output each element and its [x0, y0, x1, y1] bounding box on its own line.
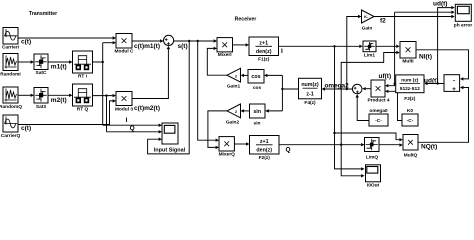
svg-text:F3(z): F3(z)	[404, 96, 416, 102]
signal label m2(t)	[51, 97, 67, 104]
wire Q tap up to MultI input2	[341, 51, 399, 145]
svg-text:CarrierQ: CarrierQ	[1, 133, 21, 139]
svg-text:F1(z): F1(z)	[258, 57, 270, 63]
wire K0 to Product4 input2	[385, 90, 402, 121]
source block RandomQ	[0, 87, 22, 110]
transfer block F3(z)	[396, 75, 424, 102]
wire omega2 tap to Gain f2	[347, 15, 362, 89]
block RT Q	[73, 84, 93, 113]
wire RandomI to SatC	[18, 60, 34, 63]
transfer block F4(z)	[299, 78, 322, 106]
product block Product 4	[367, 80, 389, 104]
wire Modul C to sum	[132, 39, 164, 42]
wire F2 output Q line to LimQ	[279, 143, 365, 146]
saturation block Lim1	[363, 41, 376, 58]
wire CarrierQ to Modul 3 input2	[18, 99, 116, 124]
scope block Input Signal	[154, 123, 186, 154]
wire s branch to scope input3	[148, 41, 190, 154]
wire MixerI to F1	[233, 43, 250, 46]
svg-text:omega0: omega0	[369, 108, 387, 114]
svg-text:MultQ: MultQ	[404, 152, 418, 158]
svg-text:uf(t): uf(t)	[379, 73, 392, 80]
wire Gain f2 to scope input3	[374, 15, 455, 18]
wire to Modul C input2	[103, 41, 116, 44]
svg-text:num (z): num (z)	[401, 78, 418, 84]
signal label ud(t) top	[433, 1, 447, 8]
signal label c(t)m2(t)	[134, 105, 160, 112]
wire CarrierI to Modul C input1	[18, 36, 116, 39]
signal label Q receiver	[286, 147, 291, 154]
svg-text:c(t)m1(t): c(t)m1(t)	[134, 43, 160, 50]
wire MultI NI to summ minus input	[416, 50, 469, 81]
svg-text:NQ(t): NQ(t)	[421, 143, 437, 150]
wire cos to Gain1	[241, 74, 248, 77]
wire Gain1 to MixerI input2	[207, 47, 227, 75]
wire Summ output ud to F3	[424, 82, 444, 85]
wire F3 output uf to scope input2 and Product4 input1	[385, 11, 455, 88]
svg-text:MultI: MultI	[402, 59, 414, 65]
svg-text:I0Out: I0Out	[367, 182, 380, 187]
saturation block SatC	[34, 54, 48, 76]
signal label s(t)	[178, 43, 188, 50]
wire Q tap to scope input2	[107, 130, 163, 133]
svg-text:Modul C: Modul C	[115, 49, 134, 55]
wire F1 output I line to Lim1	[279, 45, 363, 48]
wire Modul 3 to sum bottom	[132, 46, 170, 99]
svg-text:-C-: -C-	[375, 118, 382, 124]
svg-text:RandomI: RandomI	[0, 72, 21, 78]
signal label c(t) bottom	[21, 125, 31, 132]
signal label m1(t)	[51, 63, 67, 70]
wire Q tap down to I0Out input2	[341, 145, 364, 178]
transfer block F2(z)	[250, 136, 280, 162]
saturation block LimQ	[365, 138, 380, 161]
svg-text:ph error: ph error	[454, 22, 473, 28]
svg-text:CarrierI: CarrierI	[2, 45, 20, 51]
wire I tap to scope input1	[103, 124, 162, 127]
svg-text:cos: cos	[251, 74, 260, 80]
wire RT I output with branch	[93, 43, 104, 126]
scope block ph error	[454, 4, 473, 28]
constant block K0	[402, 108, 418, 126]
svg-text:z+1: z+1	[260, 139, 269, 145]
svg-text:Gain: Gain	[362, 26, 373, 32]
svg-text:m1(t): m1(t)	[51, 63, 67, 70]
svg-text:Product 4: Product 4	[367, 98, 389, 104]
wire s branch to MixerQ input1	[198, 41, 219, 142]
wire LimQ to MultQ input2	[379, 143, 403, 146]
scope block I0Out	[366, 165, 381, 189]
svg-text:sin: sin	[254, 120, 261, 126]
svg-text:MixerI: MixerI	[218, 52, 233, 58]
product block MultI	[400, 42, 416, 65]
svg-text:m2(t): m2(t)	[51, 97, 67, 104]
svg-text:den(z): den(z)	[256, 147, 272, 153]
signal label I receiver	[281, 48, 283, 55]
svg-text:Transmitter: Transmitter	[29, 11, 57, 17]
signal label NI(t)	[419, 54, 432, 61]
svg-text:Lim1: Lim1	[364, 52, 376, 58]
svg-text:Receiver: Receiver	[235, 17, 257, 23]
product block Modul 3	[115, 92, 133, 113]
trig block sin	[250, 104, 266, 126]
svg-text:den(z): den(z)	[256, 49, 272, 55]
signal label Q	[130, 125, 135, 132]
svg-text:K-: K-	[364, 14, 369, 19]
wire SatC to RT I	[48, 60, 73, 63]
wire sin to Gain2	[241, 109, 250, 112]
svg-text:Q: Q	[130, 125, 135, 132]
svg-text:NI(t): NI(t)	[419, 54, 432, 61]
svg-text:F4(z): F4(z)	[304, 100, 316, 106]
wire omega0 to sum2 bottom	[356, 94, 370, 120]
svg-text:RT Q: RT Q	[77, 107, 89, 113]
wire Gain2 to MixerQ input2	[208, 111, 227, 149]
product block Modul C	[115, 34, 134, 55]
signal label NQ(t)	[421, 143, 437, 150]
svg-text:Gain1: Gain1	[227, 83, 241, 89]
sum block Sum2	[352, 84, 362, 94]
saturation block Sat3	[34, 88, 48, 110]
wire sum2 to F4	[322, 87, 353, 90]
svg-text:f2: f2	[380, 17, 386, 24]
svg-text:c(t): c(t)	[21, 125, 31, 132]
wire F4 output to cos and sin	[264, 74, 299, 113]
source block CarrierQ	[1, 115, 21, 139]
wire RandomQ to Sat3	[18, 94, 34, 97]
wire I tap down the middle	[333, 46, 403, 170]
svg-text:z-1: z-1	[306, 92, 313, 98]
svg-text:ud(t): ud(t)	[433, 1, 447, 8]
svg-text:LimQ: LimQ	[366, 154, 379, 160]
product block MixerI	[217, 38, 233, 58]
signal label omega2	[325, 83, 350, 90]
svg-text:-: -	[453, 78, 455, 85]
svg-text:SatC: SatC	[36, 70, 47, 76]
svg-text:Modul 3: Modul 3	[115, 106, 133, 112]
wire ud tap to scope input1	[438, 6, 455, 84]
signal label c(t)m1(t)	[134, 43, 160, 50]
product block MultQ	[403, 135, 418, 159]
wire sum1 output to MixerI	[173, 39, 217, 42]
svg-text:+: +	[452, 86, 456, 93]
gain block Gain	[362, 10, 375, 32]
sum block Summ	[444, 75, 460, 94]
signal label ud(t) mid	[424, 78, 438, 85]
svg-text:c(t): c(t)	[21, 39, 31, 46]
svg-text:RandomQ: RandomQ	[0, 104, 22, 110]
wire MixerQ to F2	[234, 142, 249, 145]
svg-text:RT I: RT I	[78, 74, 88, 80]
trig block cos	[248, 70, 264, 92]
svg-text:F2(z): F2(z)	[259, 155, 271, 161]
wire Sat3 to RT Q	[48, 94, 73, 97]
svg-text:cos: cos	[253, 86, 262, 91]
svg-text:num(z): num(z)	[301, 82, 319, 88]
svg-text:Sat3: Sat3	[36, 104, 46, 110]
label Receiver	[235, 17, 257, 23]
svg-text:Gain2: Gain2	[226, 119, 240, 125]
svg-text:512z-512: 512z-512	[400, 86, 420, 92]
source block CarrierI	[2, 28, 20, 51]
block RT I	[73, 51, 93, 80]
svg-text:c(t)m2(t): c(t)m2(t)	[134, 105, 160, 112]
svg-text:z+1: z+1	[259, 41, 268, 47]
product block MixerQ	[219, 137, 236, 158]
gain block Gain2	[226, 104, 241, 125]
sum block Sum1	[164, 35, 174, 45]
svg-text:sin: sin	[253, 109, 261, 115]
svg-text:Q: Q	[286, 147, 291, 154]
svg-text:I: I	[281, 48, 283, 55]
signal label uf(t)	[379, 73, 392, 80]
svg-text:omega2: omega2	[325, 83, 350, 90]
svg-text:I: I	[126, 117, 128, 124]
svg-text:K0: K0	[407, 108, 413, 114]
gain block Gain1	[227, 68, 241, 89]
source block RandomI	[0, 54, 21, 78]
signal label f2	[380, 17, 386, 24]
label Transmitter	[29, 11, 57, 17]
wire Lim1 to MultI input1	[376, 45, 400, 48]
transfer block F1(z)	[249, 37, 279, 63]
wire Product 4 to sum2	[362, 87, 371, 90]
wire RT Q output with branch	[93, 94, 117, 132]
signal label I	[126, 117, 128, 124]
constant block omega0	[369, 108, 388, 126]
svg-text:MixerQ: MixerQ	[219, 152, 236, 158]
svg-text:Input Signal: Input Signal	[154, 148, 186, 154]
svg-text:s(t): s(t)	[178, 43, 188, 50]
signal label c(t) top	[21, 39, 31, 46]
wire MultQ NQ to summ plus input	[418, 86, 469, 143]
svg-text:-C-: -C-	[407, 118, 414, 124]
